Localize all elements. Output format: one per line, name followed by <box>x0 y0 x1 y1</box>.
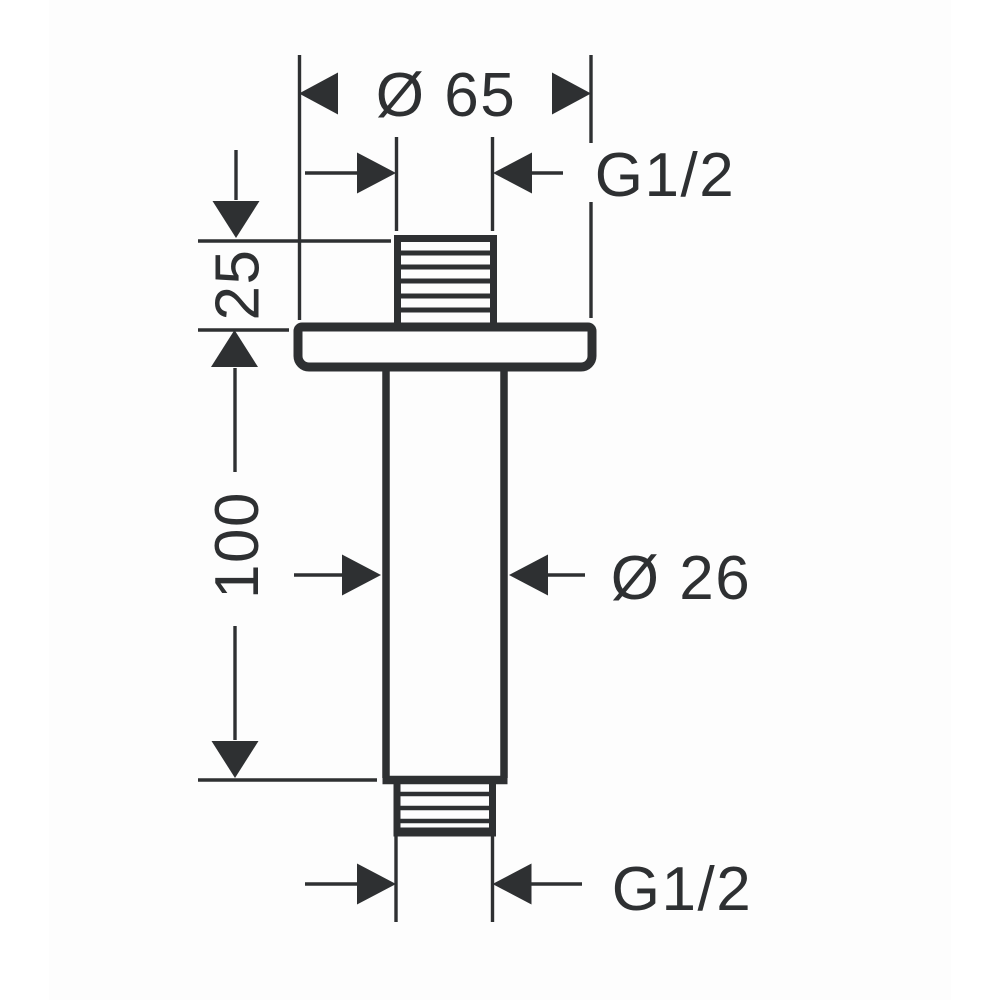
svg-text:G1/2: G1/2 <box>595 141 735 210</box>
svg-text:Ø 26: Ø 26 <box>611 544 751 613</box>
dimension 25: lines <box>198 150 391 330</box>
ceiling flange plate <box>298 327 592 367</box>
arrow G1/2 bottom right <box>493 864 532 905</box>
arrow G1/2 top right <box>493 153 532 194</box>
arrow G1/2 top left <box>357 153 396 194</box>
dimension Ø26: tail lines <box>294 573 585 576</box>
arrow 25 down <box>213 201 260 238</box>
arrow G1/2 bottom left <box>357 864 396 905</box>
svg-text:G1/2: G1/2 <box>612 855 752 924</box>
arrow Ø26 right <box>509 555 548 596</box>
arrow 100 down <box>212 741 259 778</box>
svg-text:Ø 65: Ø 65 <box>376 61 516 130</box>
dimension G1/2 top: extension + tail lines <box>305 137 563 231</box>
arrow Ø65 right <box>552 73 591 115</box>
dimension 100: lines <box>198 368 377 780</box>
bottom thread G1/2 body <box>394 784 497 832</box>
svg-text:25: 25 <box>204 249 273 321</box>
dimension G1/2 bottom: extension + tail lines <box>305 836 582 922</box>
top thread G1/2 body <box>398 239 494 330</box>
arrow Ø65 left <box>299 73 338 115</box>
pipe body <box>383 367 508 780</box>
arrow Ø26 left <box>342 555 381 596</box>
svg-text:100: 100 <box>203 491 272 599</box>
dimension Ø65: extension lines <box>300 55 592 320</box>
arrow 25/100 up <box>211 330 258 367</box>
